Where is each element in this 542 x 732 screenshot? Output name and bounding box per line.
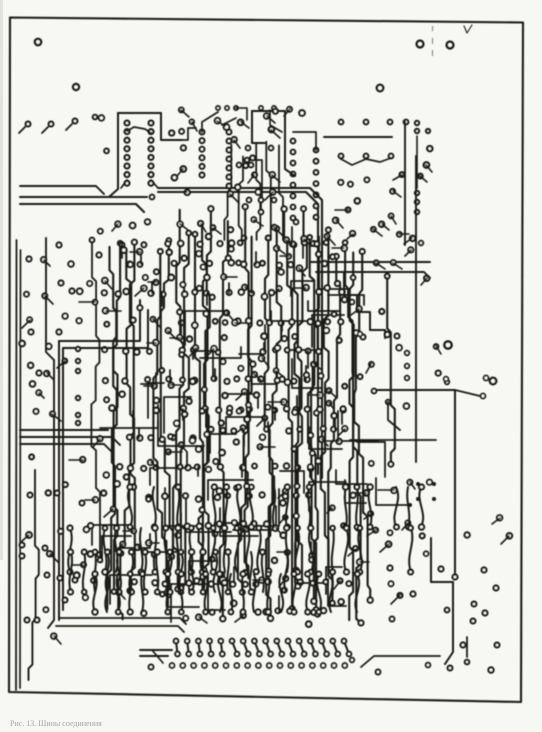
svg-text:Рис. 13. Шины соединения: Рис. 13. Шины соединения — [10, 719, 102, 728]
